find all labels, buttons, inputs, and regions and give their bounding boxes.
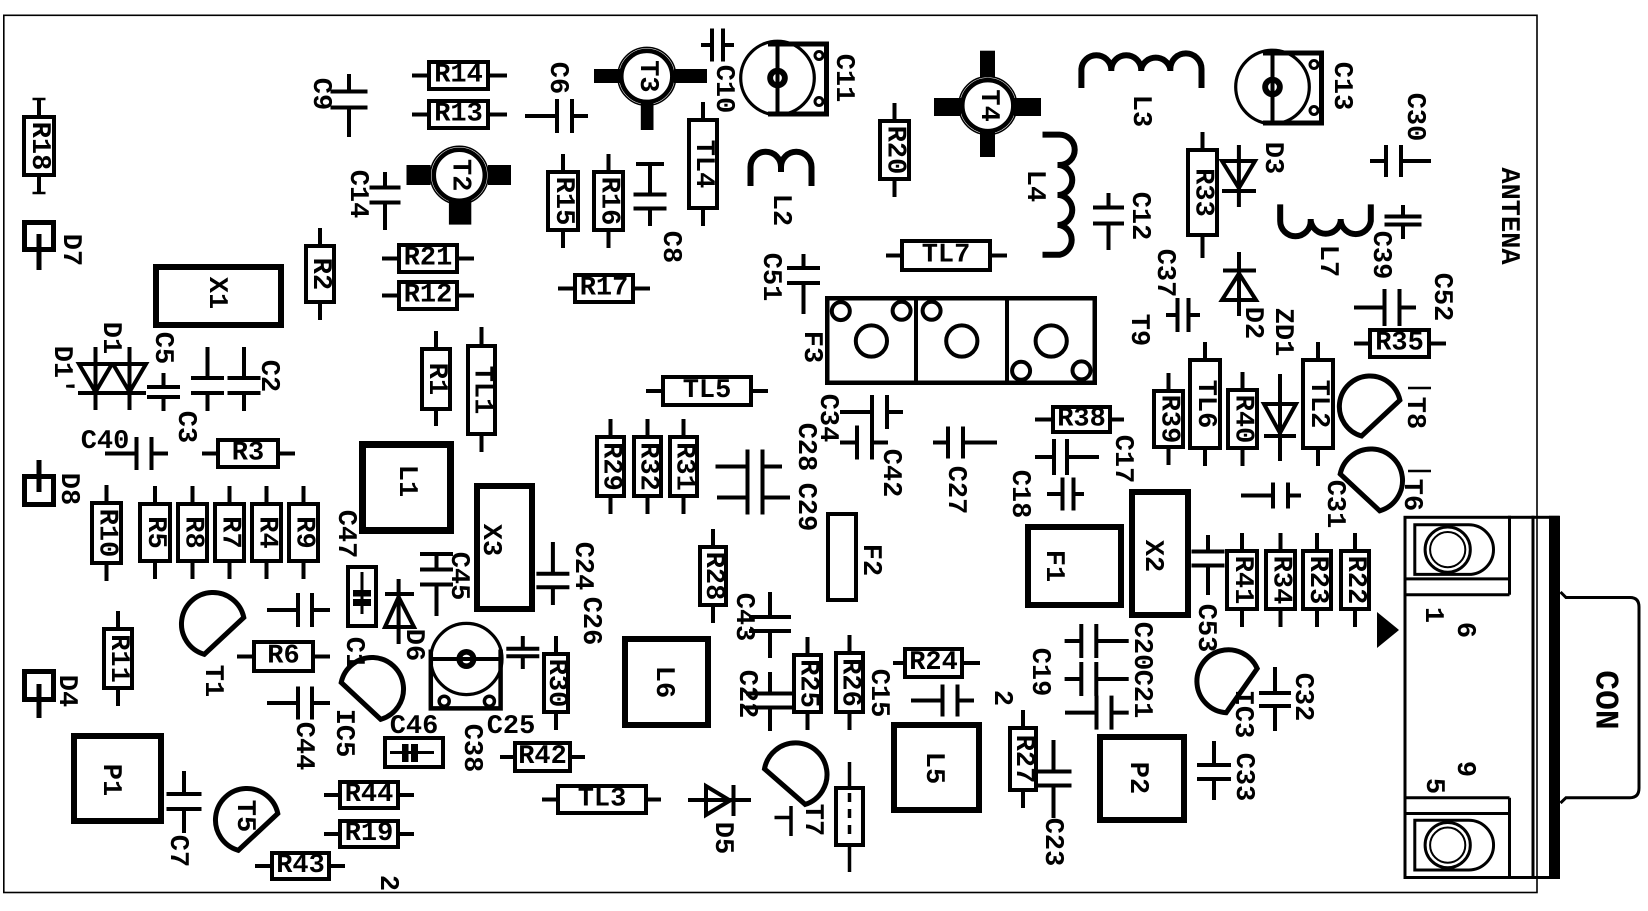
transistor T1 [181, 593, 243, 698]
resistor R20 [880, 103, 910, 197]
svg-text:R11: R11 [103, 634, 133, 683]
inductor L5 [894, 725, 979, 810]
svg-text:ANTENA: ANTENA [1493, 167, 1523, 265]
transistor T5 [215, 789, 277, 851]
resistor R17 [558, 274, 650, 304]
svg-text:C27: C27 [940, 466, 970, 515]
capacitor C42 [840, 426, 905, 498]
svg-text:C28: C28 [790, 423, 820, 472]
capacitor C22 [731, 670, 794, 731]
svg-text:TL1: TL1 [467, 366, 497, 415]
svg-text:TL2: TL2 [1303, 380, 1333, 429]
resistor R32 [633, 419, 663, 514]
arrow marker [1377, 612, 1399, 648]
resistor R30 [541, 636, 571, 730]
resistor R38 [1035, 405, 1124, 435]
label 2 (near R24) [986, 690, 1016, 706]
svg-text:R14: R14 [434, 61, 483, 91]
resistor R27 [1008, 710, 1038, 808]
svg-text:ZD1: ZD1 [1267, 308, 1297, 357]
svg-text:CON: CON [1587, 670, 1624, 729]
svg-text:R20: R20 [880, 126, 910, 175]
svg-text:R19: R19 [345, 819, 394, 849]
svg-text:C44: C44 [288, 722, 318, 771]
resistor R9 [289, 486, 319, 579]
inductor L3 [1081, 53, 1201, 127]
svg-text:C46: C46 [390, 712, 439, 742]
diode D8 [25, 460, 84, 505]
svg-text:L2: L2 [765, 194, 795, 226]
resistor R26 [835, 635, 865, 730]
capacitor C53 [1190, 535, 1225, 652]
resistor R6 [237, 642, 330, 672]
resistor R7 [215, 486, 245, 579]
svg-text:C40: C40 [81, 427, 130, 457]
svg-text:C3: C3 [170, 411, 200, 443]
svg-text:R33: R33 [1188, 168, 1218, 217]
svg-text:R25: R25 [793, 659, 823, 708]
capacitor C17 [1035, 435, 1137, 484]
svg-text:R24: R24 [909, 648, 958, 678]
resistor R13 [412, 100, 507, 130]
label ANTENA [1493, 167, 1523, 265]
svg-text:R31: R31 [669, 442, 699, 491]
svg-text:L5: L5 [918, 752, 948, 784]
svg-text:R7: R7 [215, 516, 245, 548]
resistor R42 [500, 742, 585, 772]
crystal X3 [475, 486, 532, 609]
svg-text:R23: R23 [1302, 556, 1332, 605]
svg-text:R9: R9 [289, 516, 319, 548]
capacitor C19 [1024, 624, 1129, 696]
svg-text:P2: P2 [1122, 762, 1152, 794]
coil TL4 [688, 102, 718, 226]
svg-text:R12: R12 [404, 281, 453, 311]
electrolytic capacitor C46 [385, 712, 443, 767]
svg-text:C2: C2 [253, 360, 283, 392]
svg-text:C12: C12 [1124, 192, 1154, 241]
svg-text:D5: D5 [707, 822, 737, 854]
resistor R12 [382, 281, 474, 311]
svg-text:R10: R10 [92, 509, 122, 558]
capacitor C39 [1365, 205, 1422, 279]
resistor R28 [698, 529, 728, 623]
svg-text:L1: L1 [391, 465, 421, 497]
transistor T4 [934, 51, 1041, 157]
resistor R1 [421, 331, 451, 426]
resistor R43 [255, 851, 345, 881]
resistor R3 [202, 439, 295, 469]
svg-text:R1: R1 [421, 363, 451, 395]
svg-text:R26: R26 [835, 658, 865, 707]
resistor R2 [305, 228, 335, 320]
resistor R22 [1340, 533, 1370, 627]
svg-text:R21: R21 [404, 244, 453, 274]
trimmer capacitor C13 [1236, 50, 1356, 124]
diode D4 [25, 672, 82, 719]
trimmer capacitor C25 C38 [431, 623, 536, 772]
resistor R21 [382, 244, 474, 274]
svg-text:R6: R6 [267, 642, 299, 672]
transistor T3 [594, 47, 707, 130]
svg-text:C32: C32 [1287, 673, 1317, 722]
svg-text:IC5: IC5 [328, 709, 358, 758]
svg-text:C24: C24 [567, 542, 597, 591]
capacitor C37 [1149, 249, 1200, 332]
svg-text:C5: C5 [147, 332, 177, 364]
svg-text:C8: C8 [655, 231, 685, 263]
capacitor C10 [701, 29, 738, 114]
svg-text:L7: L7 [1312, 245, 1342, 277]
svg-text:TL5: TL5 [683, 376, 732, 406]
diodes D1 and D1' [46, 322, 146, 410]
resistor R41 [1227, 533, 1257, 627]
svg-text:R22: R22 [1340, 556, 1370, 605]
svg-text:T1: T1 [197, 665, 227, 697]
resistor R34 [1266, 533, 1296, 627]
resistor R35 [1354, 329, 1446, 359]
svg-text:F3: F3 [796, 331, 826, 363]
crystal X2 [1132, 492, 1188, 615]
capacitor C12 [1093, 192, 1154, 250]
label T9 [1123, 314, 1153, 346]
filter F1 [1028, 527, 1121, 605]
inductor L4 [1019, 135, 1075, 255]
svg-text:R34: R34 [1266, 556, 1296, 605]
capacitor C30 [1370, 93, 1431, 177]
svg-text:L3: L3 [1125, 95, 1155, 127]
diode D5 [688, 785, 751, 854]
svg-text:C14: C14 [342, 170, 372, 219]
svg-text:2: 2 [372, 875, 402, 891]
resistor R18 [24, 99, 54, 193]
svg-text:T8: T8 [1399, 397, 1429, 429]
svg-text:C11: C11 [828, 54, 858, 103]
capacitor C23 [1036, 740, 1072, 866]
svg-text:C9: C9 [305, 78, 335, 110]
inductor L1 [363, 445, 451, 531]
svg-text:R38: R38 [1057, 405, 1106, 435]
svg-text:R43: R43 [276, 851, 325, 881]
capacitor C14 [342, 170, 401, 230]
svg-text:L6: L6 [648, 666, 678, 698]
svg-text:D4: D4 [51, 675, 81, 707]
trimmer capacitor C11 [741, 41, 858, 115]
coil TL5 [646, 376, 768, 406]
svg-text:C53: C53 [1190, 604, 1220, 653]
wire T7 bottom lead [775, 806, 792, 836]
svg-text:D7: D7 [55, 234, 85, 266]
svg-text:R44: R44 [345, 780, 394, 810]
capacitor C28 [716, 423, 821, 484]
capacitor C9 [305, 74, 368, 137]
potentiometer P2 [1100, 737, 1184, 820]
svg-text:P1: P1 [95, 764, 125, 796]
resistor R5 [140, 486, 170, 579]
coil TL3 [542, 785, 661, 815]
transistor T7 [765, 743, 828, 836]
svg-text:T2: T2 [444, 159, 474, 191]
wire T6 right [1408, 470, 1431, 473]
svg-text:R3: R3 [232, 439, 264, 469]
resistor R14 [412, 61, 507, 91]
svg-text:C29: C29 [790, 483, 820, 532]
svg-text:C18: C18 [1004, 470, 1034, 519]
svg-text:R28: R28 [698, 552, 728, 601]
transistor T6 [1340, 449, 1426, 511]
svg-text:T9: T9 [1123, 314, 1153, 346]
capacitor C43 [728, 592, 791, 658]
svg-text:C42: C42 [875, 449, 905, 498]
capacitor C1 [267, 593, 368, 669]
svg-text:C33: C33 [1228, 753, 1258, 802]
svg-text:X2: X2 [1137, 540, 1167, 572]
capacitor C21 [1065, 670, 1156, 730]
resistor R33 [1188, 132, 1218, 258]
resistor R23 [1302, 533, 1332, 627]
svg-text:R17: R17 [580, 274, 629, 304]
label 2 (near R43) [372, 875, 402, 891]
svg-text:F1: F1 [1038, 550, 1068, 582]
svg-text:C30: C30 [1399, 93, 1429, 142]
svg-text:R29: R29 [596, 442, 626, 491]
svg-text:D3: D3 [1257, 142, 1287, 174]
svg-text:9: 9 [1449, 761, 1479, 777]
svg-text:T4: T4 [973, 89, 1003, 121]
svg-text:TL6: TL6 [1190, 380, 1220, 429]
svg-text:TL3: TL3 [578, 785, 627, 815]
IC IC3 [1197, 650, 1257, 739]
capacitor C34 [812, 394, 903, 443]
svg-text:1: 1 [1417, 607, 1447, 623]
svg-text:TL7: TL7 [922, 241, 971, 271]
svg-text:T3: T3 [632, 60, 662, 92]
svg-text:C39: C39 [1365, 231, 1395, 280]
resistor R11 [103, 611, 133, 706]
resistor R44 [324, 780, 414, 810]
resistor R19 [324, 819, 414, 849]
capacitor C7 [162, 771, 202, 867]
svg-text:C23: C23 [1037, 818, 1067, 867]
svg-text:R5: R5 [140, 516, 170, 548]
svg-text:R32: R32 [633, 442, 663, 491]
inductor L2 [751, 152, 812, 226]
svg-text:C31: C31 [1319, 480, 1349, 529]
resistor R40 [1228, 372, 1258, 466]
coil TL7 [886, 241, 1007, 271]
svg-text:F2: F2 [855, 544, 885, 576]
capacitor C32 [1259, 667, 1317, 731]
capacitor C29 [717, 481, 820, 532]
svg-text:R8: R8 [178, 516, 208, 548]
resistor R29 [596, 419, 626, 514]
coil TL1 [467, 327, 497, 452]
svg-text:C38: C38 [456, 724, 486, 773]
svg-text:C37: C37 [1149, 249, 1179, 298]
svg-text:T5: T5 [229, 800, 259, 832]
svg-text:C15: C15 [863, 669, 893, 718]
diode D7 [25, 223, 86, 271]
capacitor C2 [228, 347, 284, 411]
capacitor C15 [863, 669, 974, 718]
svg-text:T7: T7 [797, 804, 827, 836]
capacitor C52 [1354, 273, 1456, 326]
svg-text:C45: C45 [443, 552, 473, 601]
svg-text:T6: T6 [1396, 479, 1426, 511]
svg-text:C20: C20 [1126, 622, 1156, 671]
capacitor C8 [634, 164, 686, 263]
capacitor C3 [170, 347, 224, 443]
svg-text:R35: R35 [1375, 329, 1424, 359]
svg-text:IC3: IC3 [1227, 690, 1257, 739]
svg-text:R2: R2 [305, 258, 335, 290]
svg-text:6: 6 [1449, 622, 1479, 638]
transistor T8 [1339, 376, 1429, 436]
svg-text:R15: R15 [548, 177, 578, 226]
resistor R39 [1154, 373, 1184, 465]
capacitor C45 [420, 552, 473, 616]
electrolytic capacitor C47 [330, 510, 376, 626]
resistor R25 [793, 637, 823, 730]
svg-text:D1: D1 [95, 322, 125, 354]
svg-text:C51: C51 [755, 253, 785, 302]
resistor R16 [594, 154, 624, 248]
svg-text:R41: R41 [1227, 556, 1257, 605]
svg-text:5: 5 [1418, 778, 1448, 794]
svg-text:C22: C22 [731, 670, 761, 719]
svg-text:L4: L4 [1019, 170, 1049, 202]
capacitor C18 [1004, 470, 1084, 519]
capacitor C31 [1241, 480, 1349, 529]
IC X1 [156, 267, 281, 325]
svg-text:R18: R18 [24, 122, 54, 171]
svg-text:R40: R40 [1228, 395, 1258, 444]
svg-text:C10: C10 [708, 65, 738, 114]
svg-text:C6: C6 [542, 62, 572, 94]
svg-text:D2: D2 [1237, 307, 1267, 339]
svg-text:D1': D1' [46, 346, 76, 395]
capacitor C33 [1197, 741, 1258, 801]
svg-text:R30: R30 [541, 659, 571, 708]
resistor R10 [92, 485, 122, 581]
inductor L6 [625, 639, 708, 725]
capacitor C5 [147, 332, 180, 411]
svg-text:R4: R4 [252, 516, 282, 548]
capacitor C44 [267, 687, 330, 771]
wire T8 right [1408, 387, 1431, 390]
svg-text:C43: C43 [728, 593, 758, 642]
coil TL6 [1190, 342, 1220, 466]
resistor R15 [548, 154, 578, 248]
resistor R31 [669, 419, 699, 514]
diode D3 [1222, 142, 1287, 207]
dashed component (jumper) [836, 762, 863, 872]
connector CON (DB9) [1404, 516, 1640, 879]
filter F2 [828, 514, 885, 600]
capacitor C6 [525, 62, 588, 133]
transistor T2 [407, 146, 512, 224]
svg-text:R13: R13 [434, 100, 483, 130]
svg-text:R39: R39 [1154, 395, 1184, 444]
coil TL2 [1303, 342, 1333, 466]
svg-text:TL4: TL4 [688, 140, 718, 189]
svg-text:C13: C13 [1326, 62, 1356, 111]
inductor L7 [1280, 204, 1371, 277]
potentiometer P1 [74, 736, 161, 821]
svg-text:C47: C47 [330, 510, 360, 559]
svg-text:X3: X3 [475, 524, 505, 556]
diode D6 [385, 579, 428, 661]
resistor R8 [178, 486, 208, 579]
svg-text:R16: R16 [594, 177, 624, 226]
svg-text:C25: C25 [487, 712, 536, 742]
IC IC5 [328, 658, 404, 758]
svg-text:R27: R27 [1008, 735, 1038, 784]
capacitor C51 [755, 253, 820, 314]
svg-text:X1: X1 [201, 277, 231, 309]
svg-text:2: 2 [986, 690, 1016, 706]
svg-text:C7: C7 [162, 835, 192, 867]
svg-text:D6: D6 [398, 629, 428, 661]
capacitor C26 [506, 597, 605, 669]
capacitor C40 [81, 427, 168, 470]
diode D2 [1222, 252, 1267, 339]
svg-text:C26: C26 [575, 597, 605, 646]
svg-text:C21: C21 [1126, 670, 1156, 719]
svg-text:C19: C19 [1024, 648, 1054, 697]
svg-text:D8: D8 [53, 473, 83, 505]
filter block F3 [796, 296, 1095, 385]
resistor R24 [893, 648, 980, 678]
zener diode ZD1 [1264, 308, 1297, 461]
resistor R4 [252, 486, 282, 579]
capacitor C24 [536, 542, 597, 605]
svg-text:C17: C17 [1107, 435, 1137, 484]
svg-text:R42: R42 [518, 742, 567, 772]
capacitor C27 [933, 427, 997, 515]
capacitor C20 [1065, 622, 1156, 696]
svg-text:C52: C52 [1426, 273, 1456, 322]
